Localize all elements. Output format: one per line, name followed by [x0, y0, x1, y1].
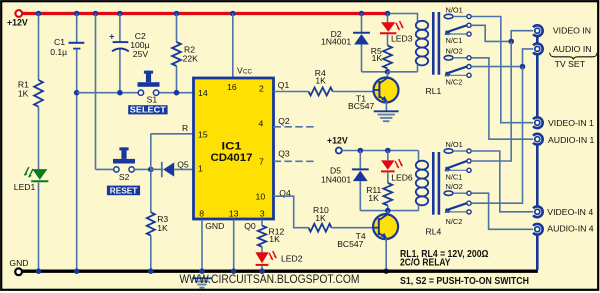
wire RL1 N/O2 to AUDIO-IN 1 [471, 58, 533, 139]
junction AUDIO IN pole bus [520, 64, 526, 70]
wire diode to pin 1 [174, 168, 193, 170]
resistor R11 [383, 183, 392, 206]
junction VIDEO IN pole bus [508, 39, 514, 45]
svg-text:N/O1: N/O1 [446, 5, 463, 14]
LED3 [381, 22, 395, 31]
wire node to R3 [150, 169, 152, 212]
junction rail end LED3 [385, 11, 391, 17]
svg-text:VIDEO IN: VIDEO IN [553, 26, 591, 36]
wire C1 to S1 row [76, 49, 78, 93]
svg-text:S1: S1 [147, 94, 158, 104]
svg-text:WWW.CIRCUITSAN.BLOGSPOT.COM: WWW.CIRCUITSAN.BLOGSPOT.COM [180, 272, 360, 286]
svg-text:1N4001: 1N4001 [321, 36, 351, 46]
svg-text:RL4: RL4 [426, 227, 442, 237]
wire C2 to S1 row [119, 49, 121, 92]
wire T4 emitter to ground bus [385, 238, 387, 271]
svg-text:+: + [109, 32, 115, 43]
svg-text:7: 7 [259, 156, 264, 166]
svg-text:LED1: LED1 [14, 182, 36, 192]
wire +12V to RL4 coil row [342, 150, 419, 152]
junction rail-C1 [74, 11, 80, 17]
svg-text:1: 1 [198, 163, 203, 173]
wire +12V rail [22, 12, 388, 15]
SELECT badge [128, 105, 167, 114]
wire R10 to T4 base [332, 227, 374, 229]
svg-text:3: 3 [260, 209, 265, 219]
svg-text:N/O2: N/O2 [446, 182, 463, 191]
wire LED2 to ground bus [261, 266, 263, 271]
junction rail-Vcc [230, 11, 236, 17]
wire node to diode anode [151, 168, 163, 170]
relay core RL1 [432, 12, 435, 75]
svg-text:4: 4 [259, 118, 264, 128]
svg-text:CD4017: CD4017 [211, 152, 253, 164]
svg-text:S2: S2 [119, 172, 130, 182]
svg-text:N/C2: N/C2 [446, 77, 463, 86]
+12V terminal (relay section) [336, 148, 342, 154]
svg-text:1K: 1K [368, 193, 379, 203]
connector AUDIO IN jack [535, 46, 540, 51]
svg-text:25V: 25V [133, 49, 149, 59]
LED6 [381, 160, 395, 169]
svg-text:14: 14 [198, 88, 208, 98]
svg-text:C1: C1 [54, 37, 65, 47]
junction C2-S1 row [117, 90, 123, 96]
wire D2 to collector node [361, 45, 363, 72]
wire R2 to S1 row [176, 66, 178, 93]
svg-text:AUDIO IN: AUDIO IN [553, 44, 592, 54]
wire R5 to collector node [387, 69, 389, 72]
resistor R2 [172, 42, 181, 66]
wire RL4 N/O1 to VIDEO-IN 4 [471, 151, 533, 212]
junction rail-S2wire [93, 11, 99, 17]
wire node to pin 15 (R) [150, 134, 152, 170]
capacitor C1 [69, 42, 85, 44]
svg-text:16: 16 [227, 82, 237, 92]
wire R1 to LED1 [38, 107, 40, 169]
junction bus-R1 [36, 268, 42, 274]
svg-text:TV SET: TV SET [555, 59, 586, 69]
resistor R4 [309, 88, 333, 96]
svg-text:LED3: LED3 [391, 33, 413, 43]
wire jack shield bus [536, 36, 539, 43]
wire RL4 N/O2 to AUDIO-IN 4 [472, 193, 534, 229]
wire R3 to ground bus [150, 236, 152, 272]
junction rail-D2 [359, 11, 365, 17]
svg-text:R: R [182, 123, 188, 133]
svg-text:10: 10 [256, 192, 266, 202]
wire S1 to pin 14 [159, 92, 193, 94]
relay coil RL1 [416, 21, 428, 30]
svg-text:N/C1: N/C1 [446, 36, 463, 45]
op-amp-ic U1 CD4017 body [194, 78, 274, 219]
junction rail-C2 [117, 11, 123, 17]
wire LED6 to R11 [387, 172, 389, 183]
diode D5 1N4001 [352, 168, 369, 170]
ground symbol below bus (pin 8) [192, 277, 212, 279]
wire T1 emitter to ground [385, 102, 387, 112]
svg-text:LED2: LED2 [281, 253, 303, 263]
svg-text:GND: GND [205, 221, 224, 231]
svg-text:BC547: BC547 [348, 101, 374, 111]
svg-text:Q0: Q0 [244, 221, 256, 231]
relay core RL4 [432, 152, 435, 215]
svg-text:RESET: RESET [110, 187, 138, 196]
wire S1 row left [77, 92, 139, 94]
wire R11 to T4 collector row [387, 206, 389, 211]
wire RL1 pole1 to VIDEO IN [471, 25, 511, 41]
wire rail to C1 [76, 14, 78, 43]
svg-text:S1, S2 = PUSH-TO-ON SWITCH: S1, S2 = PUSH-TO-ON SWITCH [400, 275, 529, 287]
svg-text:LED6: LED6 [391, 173, 413, 183]
junction R2-S1 row [174, 90, 180, 96]
junction +12V-D5 [358, 148, 364, 154]
wire pin 3 (Q0) to R12 [261, 220, 263, 226]
svg-text:AUDIO-IN 1: AUDIO-IN 1 [548, 135, 595, 145]
svg-text:N/C1: N/C1 [446, 172, 463, 181]
wire RL1 N/O1 to VIDEO-IN 1 [471, 17, 533, 123]
ground symbol T1 emitter [374, 110, 399, 112]
wire RL1 pole2 to AUDIO IN [471, 66, 522, 68]
junction bus-C1 [74, 268, 80, 274]
wire audio pole bus down to RL4 pole2 [472, 67, 523, 204]
svg-text:Q3: Q3 [278, 149, 290, 159]
wire video pole bus down to RL4 pole1 [471, 41, 511, 161]
svg-text:2C/O RELAY: 2C/O RELAY [400, 257, 451, 268]
svg-text:8: 8 [199, 209, 204, 219]
svg-text:+12V: +12V [7, 18, 28, 28]
svg-text:VIDEO-IN 1: VIDEO-IN 1 [548, 118, 594, 128]
svg-text:N/O2: N/O2 [446, 47, 463, 56]
wire rail to LED3 [387, 14, 389, 23]
push switch S1 [144, 71, 153, 74]
wire R4 to T1 base [333, 91, 374, 93]
wire rail to D2 [361, 14, 363, 33]
svg-text:1K: 1K [269, 234, 280, 244]
svg-text:N/O1: N/O1 [446, 140, 463, 149]
svg-text:RL1: RL1 [426, 86, 442, 96]
connector VIDEO-IN 1 jack [535, 120, 540, 125]
connector VIDEO-IN 4 jack [535, 209, 540, 214]
wire rail to C2 [119, 14, 121, 42]
svg-text:15: 15 [198, 130, 208, 140]
wire rail to R1 [38, 14, 40, 81]
connector VIDEO IN jack [535, 28, 540, 33]
svg-text:13: 13 [229, 209, 239, 219]
svg-text:22K: 22K [183, 54, 199, 64]
svg-text:Q5: Q5 [177, 159, 189, 169]
node T1 collector [385, 69, 391, 75]
resistor R12 [258, 226, 266, 247]
junction rail-R2 [174, 11, 180, 17]
node T4 collector [385, 208, 391, 214]
wire node to RL1 coil bottom [388, 71, 418, 73]
wire collector node to T1 [387, 72, 389, 79]
wire ground bus [22, 270, 538, 273]
resistor R10 [309, 224, 332, 232]
wire collector node to T4 [387, 211, 389, 215]
resistor R5 [383, 46, 392, 69]
svg-text:AUDIO-IN 4: AUDIO-IN 4 [547, 224, 594, 234]
wire RL4 coil bottom [418, 205, 420, 211]
svg-text:2: 2 [259, 83, 264, 93]
svg-text:Q1: Q1 [278, 80, 290, 90]
LED2 [255, 252, 268, 263]
resistor R1 [34, 80, 43, 107]
svg-text:1K: 1K [157, 223, 168, 233]
wire pin 2 (Q1) to R4 [274, 91, 309, 93]
svg-text:1K: 1K [315, 75, 326, 85]
wire pin 8 to ground bus [201, 220, 203, 272]
resistor R3 [147, 212, 155, 235]
wire rail to R2 [176, 14, 178, 43]
node S1 row [74, 90, 80, 96]
node S2-diode-R3 [148, 167, 154, 173]
junction bus-pin13 [231, 268, 237, 274]
svg-text:VIDEO-IN 4: VIDEO-IN 4 [547, 207, 593, 217]
wire LED1 to ground bus [38, 182, 40, 271]
svg-text:GND: GND [9, 258, 28, 268]
svg-text:1N4001: 1N4001 [321, 175, 351, 185]
svg-text:BC547: BC547 [337, 239, 363, 249]
+12V supply terminal [15, 10, 22, 17]
junction bus-LED2 [259, 268, 265, 274]
LED1 [32, 169, 47, 180]
connector AUDIO-IN 4 jack [535, 227, 540, 232]
wire C1 branch to ground bus [76, 93, 78, 271]
wire +12V row to LED6 [387, 151, 389, 161]
wire +12V row to D5 [359, 151, 361, 170]
brace TV SET [550, 53, 597, 60]
svg-text:SELECT: SELECT [130, 106, 166, 115]
svg-text:IC1: IC1 [222, 141, 242, 153]
junction rail-R1 [36, 11, 42, 17]
diode D2 1N4001 [353, 32, 370, 34]
RESET badge [107, 186, 140, 196]
svg-text:1K: 1K [18, 89, 29, 99]
svg-text:1K: 1K [315, 213, 326, 223]
junction bus-pin8 [199, 268, 205, 274]
relay coil RL4 [416, 161, 428, 170]
svg-text:1K: 1K [372, 53, 383, 63]
push switch S2 [119, 147, 128, 150]
junction bus-R3 [148, 268, 154, 274]
connector AUDIO-IN 1 jack [535, 137, 540, 142]
wire pin 13 to ground bus [233, 220, 235, 272]
svg-text:+12V: +12V [327, 135, 348, 145]
GND terminal [15, 268, 22, 275]
svg-text:Q2: Q2 [278, 116, 290, 126]
wire D5 to T4 collector row [359, 181, 361, 211]
junction +12V-LED6 [385, 148, 391, 154]
wire S2 to node [135, 168, 151, 170]
diode D? (Q5 to reset) [161, 162, 163, 177]
junction T4 emitter-bus [383, 268, 389, 274]
wire LED3 to R5 [387, 34, 389, 45]
wire R12 to LED2 [261, 247, 263, 253]
svg-text:CC: CC [243, 69, 252, 76]
svg-text:0.1µ: 0.1µ [50, 47, 67, 57]
wire rail to RL1 coil top [388, 13, 418, 15]
svg-text:N/C2: N/C2 [446, 217, 463, 226]
